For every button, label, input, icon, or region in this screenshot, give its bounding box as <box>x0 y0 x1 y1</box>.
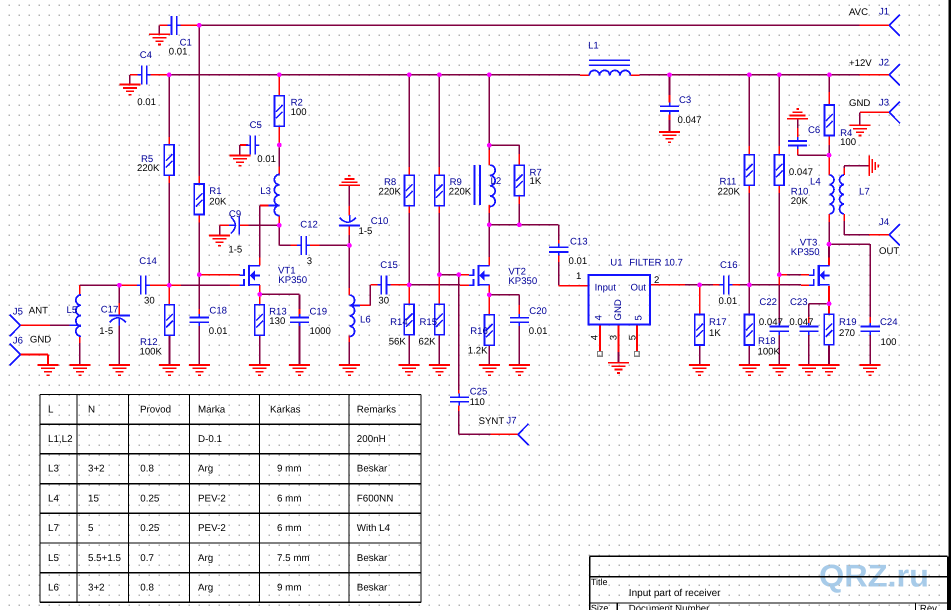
svg-text:Arg: Arg <box>198 553 213 564</box>
junction +12V/L2 <box>487 72 492 77</box>
capacitor C12 <box>297 236 310 255</box>
junction VT1 source/R13/C19 <box>257 292 262 297</box>
svg-text:R16: R16 <box>470 326 488 337</box>
label R16 <box>470 326 488 337</box>
pin name 4 (rotated) <box>593 315 604 321</box>
wire L6 tap to C15 <box>360 285 377 306</box>
ground (R13) <box>249 365 270 375</box>
capacitor C20 <box>510 314 529 326</box>
svg-text:C24: C24 <box>880 317 898 328</box>
value C19 <box>310 326 331 337</box>
svg-text:30: 30 <box>378 295 389 306</box>
wire L6 bottom to ground <box>348 336 350 365</box>
wire C9 node to C12 <box>279 225 297 245</box>
wire C5 to ground <box>240 145 248 155</box>
ground (J6) <box>38 365 59 375</box>
svg-text:L1,L2: L1,L2 <box>48 434 73 445</box>
junction R10/C22/VT3 gate1 <box>777 272 782 277</box>
wire L5 bottom to ground <box>79 336 81 365</box>
svg-text:0.01: 0.01 <box>719 296 738 307</box>
svg-text:5: 5 <box>627 335 638 340</box>
svg-text:L6: L6 <box>48 583 59 594</box>
svg-text:Input: Input <box>595 282 617 293</box>
wire C9 left lead to ground <box>220 225 229 235</box>
capacitor C18 <box>190 314 209 326</box>
svg-text:0.01: 0.01 <box>169 47 188 58</box>
svg-text:100K: 100K <box>758 346 781 357</box>
svg-text:20K: 20K <box>209 197 227 208</box>
resistor R11 <box>745 155 755 186</box>
svg-text:+12V: +12V <box>849 58 872 69</box>
wire J6 GND to ground <box>20 355 48 365</box>
svg-text:Arg: Arg <box>198 583 213 594</box>
svg-text:C9: C9 <box>229 209 241 220</box>
junction +12V/R11 <box>747 72 752 77</box>
label VT3 <box>800 238 818 249</box>
wire J3 GND to ground <box>860 112 890 125</box>
coil winding table <box>40 395 421 603</box>
chassis ground (L7) <box>869 156 878 176</box>
svg-text:220K: 220K <box>718 186 741 197</box>
svg-text:L3: L3 <box>48 464 59 475</box>
label L4 <box>810 176 821 187</box>
label ANT <box>29 306 48 317</box>
svg-text:AVC: AVC <box>849 7 868 18</box>
wire C9 right lead to node <box>239 224 279 226</box>
svg-text:Beskar: Beskar <box>357 553 388 564</box>
junction +12V/R2 <box>277 72 282 77</box>
pin number 3 (rotated) <box>608 335 619 340</box>
pin name Out <box>631 282 647 293</box>
type U1 FILTER 10.7 <box>629 257 683 268</box>
svg-text:Provod: Provod <box>140 404 171 415</box>
label AVC <box>849 7 868 18</box>
wire +12V down to L2/R7 node <box>489 75 519 165</box>
svg-text:2: 2 <box>654 275 659 286</box>
junction L3/C9/C12 <box>277 223 282 228</box>
svg-text:1000: 1000 <box>310 326 331 337</box>
label C12 <box>300 219 318 230</box>
value C16 <box>719 296 738 307</box>
pin name 5 (rotated) <box>633 315 644 320</box>
label L6 <box>360 315 371 326</box>
wire C15 to R14 node <box>390 284 409 286</box>
wire +12V to R8 to node to R14 <box>408 75 410 365</box>
transistor VT2 <box>469 265 489 286</box>
ground (C19) <box>289 365 310 375</box>
ground (C3) <box>659 132 680 142</box>
svg-text:100: 100 <box>840 137 856 148</box>
svg-text:Beskar: Beskar <box>357 583 388 594</box>
wire node to VT2 gate2 <box>409 284 469 286</box>
svg-text:L: L <box>48 404 54 415</box>
value C20 <box>529 326 548 337</box>
wire C12 to C10/L6 node <box>310 244 349 246</box>
value C4 <box>137 97 156 108</box>
junction +12V/R8 <box>407 72 412 77</box>
svg-text:J4: J4 <box>879 217 890 228</box>
svg-text:0.01: 0.01 <box>137 97 156 108</box>
value R1 <box>209 197 227 208</box>
ground (C24) <box>860 365 881 375</box>
connector J6 <box>10 344 21 366</box>
svg-text:R14: R14 <box>390 317 408 328</box>
svg-text:R17: R17 <box>709 317 727 328</box>
svg-text:9 mm: 9 mm <box>277 583 302 594</box>
svg-text:C18: C18 <box>209 306 227 317</box>
junction C25 tap <box>456 272 461 277</box>
svg-text:0.25: 0.25 <box>140 523 160 534</box>
label L3 <box>260 186 271 197</box>
label C20 <box>529 306 547 317</box>
svg-text:PEV-2: PEV-2 <box>198 523 226 534</box>
ground (C5) <box>229 155 250 165</box>
svg-text:62K: 62K <box>419 337 437 348</box>
wire AVC/R1 node vertical <box>198 25 200 317</box>
svg-text:0.01: 0.01 <box>569 256 588 267</box>
svg-text:6 mm: 6 mm <box>277 493 302 504</box>
svg-text:C10: C10 <box>371 216 389 227</box>
label R5 <box>141 154 153 165</box>
svg-text:110: 110 <box>470 397 485 408</box>
junction AVC/C1/R1 <box>197 23 202 28</box>
svg-text:C3: C3 <box>679 95 691 106</box>
pin 1 (U1) <box>576 271 581 282</box>
wire C6 branch <box>798 119 829 156</box>
label VT2 <box>508 266 526 277</box>
svg-text:0.047: 0.047 <box>678 115 702 126</box>
wire VT1 drain internal <box>259 265 261 267</box>
wire L7 top to chassis <box>844 166 869 175</box>
svg-text:J1: J1 <box>879 6 889 17</box>
label R8 <box>384 177 396 188</box>
power symbol above C6 <box>787 109 808 119</box>
ground (C20) <box>509 365 530 375</box>
svg-text:56K: 56K <box>389 337 407 348</box>
svg-text:L7: L7 <box>859 186 870 197</box>
svg-text:L1: L1 <box>588 40 599 51</box>
svg-text:3+2: 3+2 <box>88 464 105 475</box>
label L1 <box>588 40 599 51</box>
svg-text:3: 3 <box>307 256 312 267</box>
junction VT3 drain/L4/C24 <box>827 242 832 247</box>
value R11 <box>718 186 741 197</box>
inductor L4 <box>829 175 834 214</box>
label OUT <box>879 246 899 257</box>
svg-text:FILTER 10.7: FILTER 10.7 <box>629 257 683 268</box>
svg-text:L4: L4 <box>810 176 821 187</box>
resistor R15 <box>435 304 445 335</box>
inductor L7 <box>840 175 845 214</box>
svg-text:Title: Title <box>591 577 608 587</box>
capacitor C4 <box>138 65 151 84</box>
svg-text:0.047: 0.047 <box>759 317 783 328</box>
junction R1/C18/VT1 gate1 <box>197 272 202 277</box>
label C14 <box>139 256 157 267</box>
inductor L3 <box>269 174 280 215</box>
capacitor C25 <box>450 394 469 406</box>
svg-text:R19: R19 <box>839 317 857 328</box>
ground (C17) <box>109 365 130 375</box>
value C24 <box>881 337 897 348</box>
junction +12V/C4/R5 <box>167 72 172 77</box>
label R18 <box>758 336 776 347</box>
wire drain node to C13 <box>519 225 558 244</box>
svg-text:0.047: 0.047 <box>789 317 813 328</box>
wire VT2 source node to R16 and C20 <box>489 285 519 365</box>
value C3 <box>678 115 702 126</box>
svg-text:100K: 100K <box>140 346 163 357</box>
svg-text:C6: C6 <box>808 125 820 136</box>
resistor R1 <box>194 184 204 215</box>
svg-text:1-5: 1-5 <box>359 226 373 237</box>
wire R18 branch <box>748 285 750 365</box>
junction U1 out/R17 <box>697 283 702 288</box>
label J5 <box>13 306 23 317</box>
value R12 <box>140 346 163 357</box>
resistor R12 <box>165 305 175 336</box>
label L7 <box>859 186 870 197</box>
value C25 <box>470 397 485 408</box>
wire +12V to R4 to L4 to VT3 drain <box>828 75 830 266</box>
svg-text:100: 100 <box>291 107 307 118</box>
svg-text:L2: L2 <box>491 176 502 187</box>
label GND (J3) <box>849 98 870 109</box>
value R10 <box>791 196 809 207</box>
svg-text:C19: C19 <box>310 307 328 318</box>
svg-text:5: 5 <box>633 315 644 320</box>
wire node to VT2 gate1 and C25 branch <box>439 274 469 276</box>
label GND (J6) <box>30 334 51 345</box>
transistor VT3 <box>809 265 829 286</box>
label C25 <box>470 387 488 398</box>
wire L3 tap to VT1 drain <box>260 206 269 266</box>
label C24 <box>880 317 898 328</box>
resistor R9 <box>435 175 445 206</box>
label J3 <box>879 97 889 108</box>
value R8 <box>379 187 402 198</box>
capacitor C16 <box>720 275 733 294</box>
junction C12/C10/L6 <box>347 243 352 248</box>
svg-text:C20: C20 <box>529 306 547 317</box>
junction +12V/R4 <box>827 72 832 77</box>
svg-text:Beskar: Beskar <box>357 464 388 475</box>
wire +12V to R5 to C14 node to R12 <box>168 75 170 365</box>
svg-text:ANT: ANT <box>29 306 48 317</box>
svg-text:4: 4 <box>593 315 604 321</box>
pin number 5 (rotated) <box>627 335 638 340</box>
value R15 <box>419 337 437 348</box>
wire C1 to ground <box>159 25 171 34</box>
value C1 <box>169 47 188 58</box>
inductor L6 <box>349 295 360 336</box>
label R19 <box>839 317 857 328</box>
svg-text:0.01: 0.01 <box>529 326 548 337</box>
svg-text:6 mm: 6 mm <box>277 523 302 534</box>
ground (R12) <box>159 365 180 375</box>
capacitor C19 <box>290 314 309 326</box>
svg-text:220K: 220K <box>137 163 160 174</box>
value R4 <box>840 137 856 148</box>
junction C17 tap <box>117 283 122 288</box>
wire J5 ANT to L5 tap <box>20 324 69 326</box>
junction C16/R11/VT3 gate2 <box>747 283 752 288</box>
label C5 <box>250 120 262 131</box>
svg-text:C23: C23 <box>790 297 808 308</box>
svg-text:5: 5 <box>88 523 94 534</box>
svg-text:4: 4 <box>589 334 600 340</box>
svg-text:270: 270 <box>839 328 855 339</box>
value C14 <box>144 296 155 307</box>
svg-text:C16: C16 <box>720 260 738 271</box>
value C6 <box>789 167 813 178</box>
svg-text:Rev: Rev <box>920 603 937 610</box>
label R12 <box>140 337 158 348</box>
label L5 <box>67 305 78 316</box>
svg-text:Karkas: Karkas <box>270 404 301 415</box>
ground (U1 pin3) <box>608 363 629 373</box>
svg-text:PEV-2: PEV-2 <box>198 493 226 504</box>
wire R1 node to VT1 gate1 <box>199 274 240 276</box>
svg-text:J3: J3 <box>879 97 889 108</box>
capacitor C15 <box>377 275 390 294</box>
connector J1 <box>889 15 900 37</box>
ground (L5) <box>70 365 91 375</box>
capacitor C23 <box>799 323 818 335</box>
ground (R17) <box>689 365 710 375</box>
resistor R8 <box>405 175 415 206</box>
wire R2-C5-L3 vertical <box>278 75 280 225</box>
wire C4 to ground <box>130 75 142 84</box>
label VT1 <box>278 266 296 277</box>
inductor L5 <box>69 285 81 336</box>
ground (R19) <box>819 365 840 375</box>
capacitor C14 <box>137 276 150 295</box>
resistor R18 <box>745 315 755 346</box>
ground (R15) <box>429 365 450 375</box>
value C18 <box>209 326 228 337</box>
value R16 <box>468 346 488 357</box>
label C3 <box>679 95 691 106</box>
svg-text:220K: 220K <box>379 187 402 198</box>
value R17 <box>709 328 721 339</box>
svg-text:L5: L5 <box>67 305 78 316</box>
label R14 <box>390 317 408 328</box>
label C10 <box>371 216 389 227</box>
ground (R14) <box>399 365 420 375</box>
wire C17 leads <box>118 285 120 365</box>
svg-text:1: 1 <box>576 271 581 282</box>
label SYNT <box>479 416 505 427</box>
label C13 <box>570 237 588 248</box>
connector J4 <box>889 224 900 246</box>
value R19 <box>839 328 855 339</box>
ground (L6) <box>339 365 360 375</box>
svg-text:With L4: With L4 <box>357 523 391 534</box>
junction +12V/R9 <box>437 72 442 77</box>
svg-text:N: N <box>88 404 95 415</box>
type VT2 <box>508 276 537 287</box>
resistor R7 <box>515 165 525 196</box>
svg-text:R15: R15 <box>420 317 438 328</box>
wire C10 column <box>348 185 350 245</box>
value C9 <box>228 245 242 256</box>
no-connect square pin 4 <box>598 352 603 357</box>
svg-text:0.01: 0.01 <box>257 154 276 165</box>
junction R9/R15/VT2 gate1 <box>437 272 442 277</box>
ground (J3) <box>849 125 870 135</box>
svg-text:C5: C5 <box>250 120 262 131</box>
svg-text:C17: C17 <box>101 304 119 315</box>
no-connect square pin 5 <box>635 352 640 357</box>
capacitor C10 (trimmer) <box>339 215 360 225</box>
ground (C18) <box>189 365 210 375</box>
resistor R5 <box>164 145 174 176</box>
wire U1 pin 3 to ground <box>618 325 620 363</box>
value R2 <box>291 107 307 118</box>
value R13 <box>269 316 285 327</box>
value R5 <box>137 163 160 174</box>
capacitor C3 <box>660 103 679 115</box>
value R18 <box>758 346 781 357</box>
label C4 <box>140 50 153 61</box>
svg-text:C14: C14 <box>139 256 157 267</box>
label L2 <box>491 176 502 187</box>
wire R17 branch <box>699 285 701 365</box>
svg-text:1-5: 1-5 <box>99 326 113 337</box>
svg-text:20K: 20K <box>791 196 809 207</box>
pin 2 (U1) <box>654 275 659 286</box>
svg-text:7.5 mm: 7.5 mm <box>277 553 310 564</box>
value C10 <box>359 226 373 237</box>
svg-text:9 mm: 9 mm <box>277 464 302 475</box>
svg-text:D-0.1: D-0.1 <box>198 434 222 445</box>
svg-text:5.5+1.5: 5.5+1.5 <box>88 553 122 564</box>
svg-text:3+2: 3+2 <box>88 583 105 594</box>
resistor R10 <box>775 155 785 186</box>
label C16 <box>720 260 738 271</box>
svg-text:L6: L6 <box>360 315 371 326</box>
resistor R13 <box>255 305 265 336</box>
svg-text:Size: Size <box>591 603 609 610</box>
ground (C4) <box>119 85 140 95</box>
svg-text:L4: L4 <box>48 493 59 504</box>
svg-text:1K: 1K <box>530 176 542 187</box>
wire C3 branch <box>669 75 671 132</box>
connector J7 <box>518 424 529 446</box>
svg-text:L7: L7 <box>48 523 59 534</box>
svg-text:KP350: KP350 <box>508 276 537 287</box>
svg-text:J5: J5 <box>13 306 23 317</box>
label U1 <box>610 257 622 268</box>
op-amp U1 filter box <box>589 275 651 325</box>
capacitor C13 <box>549 244 568 256</box>
capacitor C9 (trimmer) <box>229 216 239 234</box>
value R9 <box>449 187 472 198</box>
label J7 <box>506 416 516 427</box>
value C13 <box>569 256 588 267</box>
junction R7/C13 <box>517 222 522 227</box>
ground (C9) <box>209 235 230 245</box>
transistor VT1 <box>240 265 260 286</box>
pin name Input <box>595 282 617 293</box>
svg-text:L5: L5 <box>48 553 59 564</box>
svg-text:200nH: 200nH <box>357 434 386 445</box>
capacitor C5 <box>246 136 259 155</box>
svg-text:U1: U1 <box>610 257 622 268</box>
svg-text:KP350: KP350 <box>791 247 820 258</box>
svg-text:1-5: 1-5 <box>228 245 242 256</box>
